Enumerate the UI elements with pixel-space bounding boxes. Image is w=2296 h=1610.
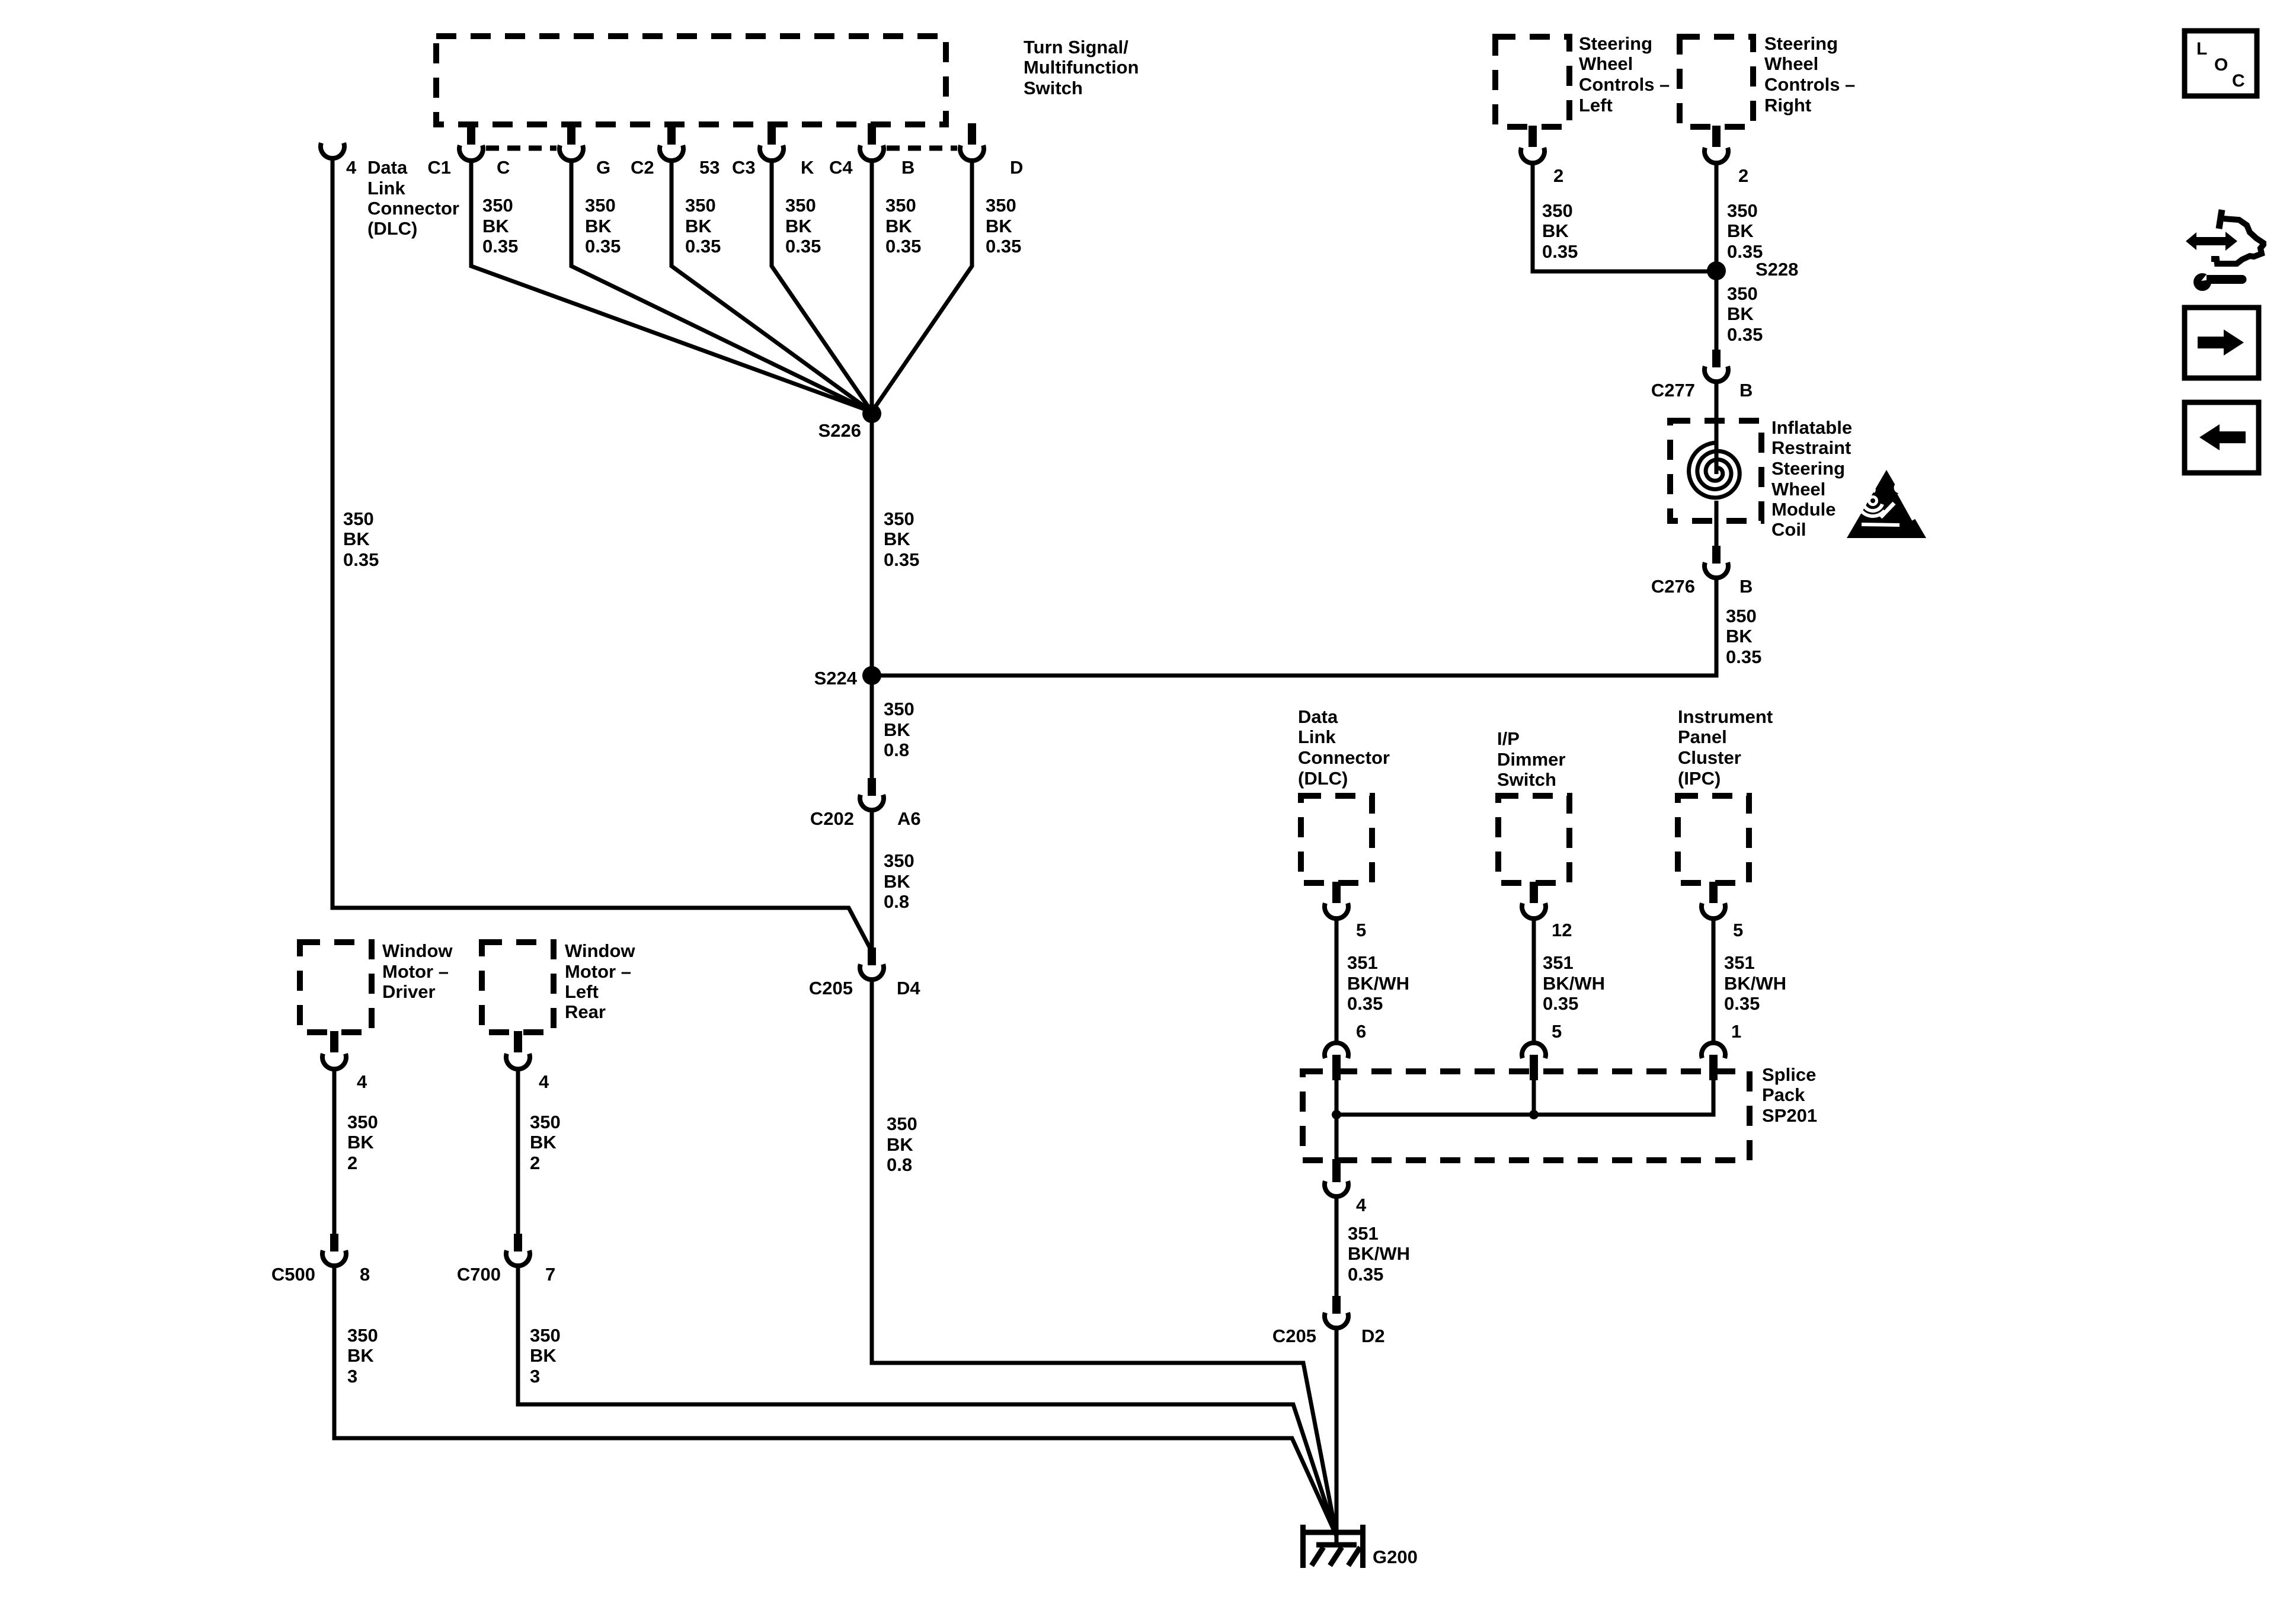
svg-text:BK/WH: BK/WH: [1348, 1243, 1410, 1264]
svg-text:C700: C700: [457, 1264, 501, 1285]
IPC pin: [1709, 882, 1718, 903]
svg-text:2: 2: [1738, 165, 1748, 186]
svg-text:C: C: [2232, 71, 2245, 91]
splice S226: [862, 404, 881, 423]
wire pin C to S226: [471, 162, 872, 412]
svg-text:351: 351: [1543, 952, 1574, 973]
svg-text:BK: BK: [884, 529, 910, 549]
wire DLC to SP201: [1335, 920, 1339, 1041]
svg-text:Coil: Coil: [1771, 519, 1806, 540]
wire pin G to S226: [571, 162, 872, 412]
wire steering right through S228 to C277: [1715, 164, 1719, 350]
svg-text:Controls –: Controls –: [1764, 74, 1855, 95]
svg-text:0.35: 0.35: [1348, 1264, 1383, 1285]
connector C276 cup: [1705, 562, 1728, 578]
svg-text:BK: BK: [482, 216, 509, 236]
window motor driver cup: [322, 1054, 346, 1069]
svg-text:6: 6: [1356, 1021, 1366, 1042]
svg-text:K: K: [801, 157, 814, 178]
svg-text:Connector: Connector: [1298, 747, 1390, 768]
svg-text:BK: BK: [1727, 303, 1754, 324]
wire SP201 to C205 D2: [1335, 1198, 1339, 1296]
svg-text:2: 2: [347, 1153, 357, 1173]
IPC cup: [1702, 903, 1725, 918]
wire pin D to S226: [872, 162, 972, 412]
svg-text:S226: S226: [818, 420, 861, 441]
svg-text:BK: BK: [884, 871, 910, 892]
inflatable restraint steering wheel module coil box: [1670, 421, 1761, 521]
svg-text:A6: A6: [897, 808, 921, 829]
svg-text:C1: C1: [427, 157, 451, 178]
svg-text:350: 350: [785, 195, 816, 216]
svg-text:351: 351: [1724, 952, 1755, 973]
svg-text:BK: BK: [884, 719, 910, 740]
svg-text:BK/WH: BK/WH: [1347, 973, 1409, 994]
svg-text:Right: Right: [1764, 95, 1811, 116]
svg-text:G200: G200: [1373, 1547, 1418, 1567]
svg-text:Wheel: Wheel: [1764, 53, 1818, 74]
svg-text:BK: BK: [347, 1345, 374, 1366]
wire C277 to coil: [1715, 383, 1719, 474]
SRS warning triangle: [1847, 470, 1926, 538]
svg-text:BK: BK: [347, 1132, 374, 1153]
SP201 entry cup 5: [1522, 1043, 1546, 1058]
svg-text:Data: Data: [1298, 706, 1338, 727]
svg-text:Link: Link: [367, 178, 405, 199]
svg-text:Window: Window: [565, 940, 635, 961]
svg-text:I/P: I/P: [1497, 728, 1520, 749]
svg-text:Steering: Steering: [1579, 33, 1652, 54]
svg-text:C205: C205: [809, 978, 853, 998]
svg-text:C3: C3: [732, 157, 756, 178]
turn signal switch connector cup D: [960, 145, 984, 161]
svg-text:Window: Window: [382, 940, 453, 961]
svg-text:0.35: 0.35: [482, 236, 518, 257]
svg-text:Splice: Splice: [1762, 1064, 1816, 1085]
svg-text:D4: D4: [897, 978, 920, 998]
svg-text:350: 350: [1542, 200, 1573, 221]
connector C277 pin: [1712, 350, 1721, 367]
svg-text:0.8: 0.8: [884, 891, 909, 912]
wire pin 53 to S226: [671, 162, 872, 412]
svg-text:Panel: Panel: [1678, 726, 1727, 747]
wire pin K to S226: [772, 162, 872, 412]
svg-text:BK: BK: [785, 216, 812, 236]
svg-text:Data: Data: [367, 157, 408, 178]
turn signal switch connector cup G: [559, 145, 583, 161]
window motor driver pin 4: [330, 1031, 338, 1052]
svg-text:350: 350: [1726, 606, 1757, 626]
wire DLC-4 to C205: [332, 158, 870, 948]
wire C205-D2 to G200: [1335, 1329, 1339, 1545]
svg-text:2: 2: [1553, 165, 1563, 186]
svg-text:BK: BK: [887, 1134, 913, 1155]
svg-text:0.35: 0.35: [1543, 993, 1578, 1014]
svg-text:C205: C205: [1272, 1326, 1316, 1346]
svg-text:4: 4: [357, 1071, 367, 1092]
connector C205-D2 cup: [1325, 1313, 1348, 1328]
svg-text:D2: D2: [1361, 1326, 1385, 1346]
svg-text:C277: C277: [1651, 380, 1695, 401]
steering left pin 2: [1528, 126, 1537, 147]
svg-text:Steering: Steering: [1771, 458, 1845, 479]
svg-text:0.35: 0.35: [585, 236, 621, 257]
dashed connector link B-D: [887, 146, 957, 151]
connector C700 pin: [514, 1234, 522, 1251]
svg-text:Rear: Rear: [565, 1001, 606, 1022]
svg-text:7: 7: [545, 1264, 555, 1285]
SP201 entry pin 1: [1709, 1055, 1718, 1080]
splice S224: [862, 666, 881, 685]
svg-text:1: 1: [1731, 1021, 1741, 1042]
svg-text:350: 350: [884, 699, 914, 719]
DLC cup: [1325, 903, 1348, 918]
SP201 bus wire: [1336, 1080, 1713, 1160]
svg-text:4: 4: [539, 1071, 549, 1092]
svg-text:C202: C202: [810, 808, 854, 829]
svg-text:Cluster: Cluster: [1678, 747, 1741, 768]
svg-text:350: 350: [885, 195, 916, 216]
SP201 junction dot A: [1332, 1110, 1341, 1119]
svg-text:C276: C276: [1651, 576, 1695, 597]
svg-text:L: L: [2196, 39, 2207, 59]
svg-text:B: B: [1739, 576, 1753, 597]
turn signal switch connector cup C: [459, 145, 483, 161]
svg-text:351: 351: [1347, 952, 1378, 973]
SP201 junction dot B: [1529, 1110, 1539, 1119]
turn signal switch pin B: [868, 123, 876, 145]
svg-text:350: 350: [884, 850, 914, 871]
svg-text:BK: BK: [343, 529, 370, 549]
svg-text:BK: BK: [986, 216, 1012, 236]
connector C202 pin: [868, 778, 876, 796]
wire pin B through S226 S224 to C202: [870, 162, 874, 778]
wire C205-D4 to G200: [872, 981, 1336, 1536]
window motor - left rear box: [482, 942, 554, 1032]
turn signal switch pin G: [567, 123, 575, 145]
svg-text:Wheel: Wheel: [1579, 53, 1633, 74]
wire left rear motor to C700: [516, 1070, 520, 1234]
svg-text:C2: C2: [631, 157, 654, 178]
car diagnostic icon: [2186, 210, 2263, 291]
turn signal switch connector cup B: [860, 145, 884, 161]
svg-text:Connector: Connector: [367, 198, 459, 219]
svg-text:350: 350: [530, 1112, 561, 1132]
I/P dimmer switch box: [1498, 796, 1569, 883]
svg-text:BK: BK: [1727, 220, 1754, 241]
svg-text:S224: S224: [814, 668, 858, 689]
svg-text:0.35: 0.35: [1726, 646, 1761, 667]
window motor - driver box: [300, 942, 372, 1032]
svg-text:12: 12: [1552, 920, 1572, 940]
svg-text:4: 4: [346, 157, 357, 178]
connector C500 cup: [322, 1250, 346, 1266]
SP201 entry pin 6: [1332, 1055, 1341, 1080]
connector C202 cup: [860, 795, 884, 810]
svg-text:Multifunction: Multifunction: [1024, 57, 1139, 78]
data link connector (DLC) box: [1301, 796, 1372, 883]
svg-text:Inflatable: Inflatable: [1771, 417, 1852, 438]
steering right cup: [1705, 148, 1728, 163]
arrow left icon: [2185, 402, 2259, 473]
svg-text:Left: Left: [565, 981, 599, 1002]
splice pack SP201 box: [1303, 1071, 1750, 1160]
svg-text:350: 350: [986, 195, 1016, 216]
LOC page icon: [2185, 31, 2257, 96]
svg-text:3: 3: [530, 1366, 540, 1387]
instrument panel cluster (IPC) box: [1678, 796, 1749, 883]
svg-text:0.35: 0.35: [685, 236, 721, 257]
svg-text:BK: BK: [1542, 220, 1569, 241]
svg-text:0.35: 0.35: [343, 549, 379, 570]
svg-text:BK: BK: [530, 1345, 557, 1366]
svg-text:350: 350: [343, 508, 374, 529]
svg-text:0.35: 0.35: [1347, 993, 1383, 1014]
svg-text:BK: BK: [1726, 626, 1753, 646]
svg-text:5: 5: [1552, 1021, 1562, 1042]
svg-text:Switch: Switch: [1024, 78, 1083, 98]
svg-text:Dimmer: Dimmer: [1497, 749, 1565, 770]
turn signal / multifunction switch box: [436, 36, 946, 124]
svg-text:Instrument: Instrument: [1678, 706, 1773, 727]
svg-text:350: 350: [1727, 283, 1758, 304]
svg-text:350: 350: [887, 1113, 917, 1134]
wire dimmer to SP201: [1532, 920, 1536, 1041]
turn signal switch connector cup K: [760, 145, 784, 161]
svg-text:B: B: [1739, 380, 1753, 401]
svg-text:Motor –: Motor –: [382, 961, 449, 982]
svg-text:0.35: 0.35: [1724, 993, 1760, 1014]
wire driver motor to C500: [332, 1070, 337, 1234]
wire C202 to C205 D4: [870, 811, 874, 948]
steering wheel controls - right box: [1680, 37, 1753, 127]
connector C700 cup: [506, 1250, 530, 1266]
dashed connector link C-G: [486, 146, 557, 151]
svg-text:Left: Left: [1579, 95, 1613, 116]
svg-text:350: 350: [530, 1325, 561, 1346]
svg-text:BK/WH: BK/WH: [1543, 973, 1605, 994]
svg-text:350: 350: [347, 1112, 378, 1132]
svg-text:Driver: Driver: [382, 981, 436, 1002]
svg-text:BK: BK: [885, 216, 912, 236]
svg-text:C: C: [497, 157, 510, 178]
svg-text:O: O: [2214, 55, 2228, 75]
svg-text:Turn Signal/: Turn Signal/: [1024, 37, 1128, 57]
data link connector cup (pin 4): [321, 143, 344, 158]
svg-text:Motor –: Motor –: [565, 961, 631, 982]
svg-text:5: 5: [1356, 920, 1366, 940]
connector C500 pin: [330, 1234, 338, 1251]
window motor left rear pin 4: [514, 1031, 522, 1052]
svg-text:0.35: 0.35: [1542, 241, 1578, 262]
dimmer pin: [1530, 882, 1538, 903]
svg-text:0.35: 0.35: [885, 236, 921, 257]
svg-text:0.35: 0.35: [1727, 324, 1763, 345]
svg-text:350: 350: [347, 1325, 378, 1346]
coil spiral: [1689, 443, 1740, 498]
DLC pin: [1332, 882, 1341, 903]
svg-text:(IPC): (IPC): [1678, 768, 1721, 789]
steering right pin 2: [1712, 126, 1721, 147]
svg-text:C500: C500: [271, 1264, 315, 1285]
svg-text:350: 350: [482, 195, 513, 216]
svg-text:BK: BK: [585, 216, 612, 236]
svg-text:4: 4: [1356, 1195, 1367, 1215]
svg-text:350: 350: [1727, 200, 1758, 221]
connector C205-D2 pin: [1332, 1296, 1341, 1314]
turn signal switch pin D: [968, 123, 976, 145]
splice S228: [1707, 261, 1726, 280]
turn signal switch pin K: [768, 123, 776, 145]
svg-text:0.35: 0.35: [986, 236, 1021, 257]
ground G200 symbol: [1300, 1525, 1366, 1568]
arrow right icon: [2185, 308, 2259, 378]
svg-text:BK: BK: [685, 216, 712, 236]
svg-text:B: B: [901, 157, 914, 178]
svg-text:Restraint: Restraint: [1771, 437, 1851, 458]
SP201 exit pin 4: [1332, 1159, 1341, 1182]
svg-text:350: 350: [585, 195, 616, 216]
dimmer cup: [1522, 903, 1546, 918]
svg-text:G: G: [596, 157, 610, 178]
svg-text:(DLC): (DLC): [1298, 768, 1348, 789]
steering left cup: [1521, 148, 1544, 163]
SP201 entry cup 6: [1325, 1043, 1348, 1058]
SP201 exit cup: [1325, 1181, 1348, 1196]
steering wheel controls - left box: [1495, 37, 1569, 127]
svg-text:2: 2: [530, 1153, 540, 1173]
connector C276 pin: [1712, 546, 1721, 564]
svg-text:BK/WH: BK/WH: [1724, 973, 1786, 994]
SP201 entry pin 5: [1530, 1055, 1538, 1080]
svg-text:C4: C4: [829, 157, 853, 178]
wire coil to C276: [1715, 501, 1719, 546]
svg-text:Switch: Switch: [1497, 769, 1556, 790]
svg-text:5: 5: [1733, 920, 1743, 940]
svg-text:Wheel: Wheel: [1771, 479, 1825, 500]
svg-text:0.8: 0.8: [884, 740, 909, 760]
svg-text:0.8: 0.8: [887, 1154, 912, 1175]
turn signal switch pin 53: [667, 123, 676, 145]
svg-text:53: 53: [699, 157, 720, 178]
svg-text:0.35: 0.35: [785, 236, 821, 257]
wire C700 to G200: [518, 1267, 1336, 1536]
wire C500 to G200: [334, 1267, 1336, 1536]
svg-text:D: D: [1010, 157, 1023, 178]
turn signal switch pin C: [467, 123, 475, 145]
wire steering left to S228: [1533, 164, 1716, 271]
svg-text:351: 351: [1348, 1223, 1379, 1244]
svg-text:SP201: SP201: [1762, 1105, 1817, 1126]
svg-text:Steering: Steering: [1764, 33, 1838, 54]
svg-text:350: 350: [884, 508, 914, 529]
svg-text:Controls –: Controls –: [1579, 74, 1670, 95]
svg-text:Pack: Pack: [1762, 1084, 1805, 1105]
SP201 entry cup 1: [1702, 1043, 1725, 1058]
wire IPC to SP201: [1712, 920, 1716, 1041]
svg-text:8: 8: [360, 1264, 370, 1285]
connector C277 cup: [1705, 366, 1728, 382]
wire S224 to C276: [872, 580, 1716, 676]
svg-text:0.35: 0.35: [884, 549, 919, 570]
svg-text:3: 3: [347, 1366, 357, 1387]
svg-text:BK: BK: [530, 1132, 557, 1153]
connector C205-D4 cup: [860, 964, 884, 980]
connector C205-D4 pin: [868, 948, 876, 965]
svg-text:Link: Link: [1298, 726, 1336, 747]
svg-text:350: 350: [685, 195, 716, 216]
svg-text:S228: S228: [1755, 259, 1798, 280]
svg-text:(DLC): (DLC): [367, 218, 417, 239]
window motor left rear cup: [506, 1054, 530, 1069]
turn signal switch connector cup 53: [660, 145, 683, 161]
svg-text:Module: Module: [1771, 499, 1836, 520]
